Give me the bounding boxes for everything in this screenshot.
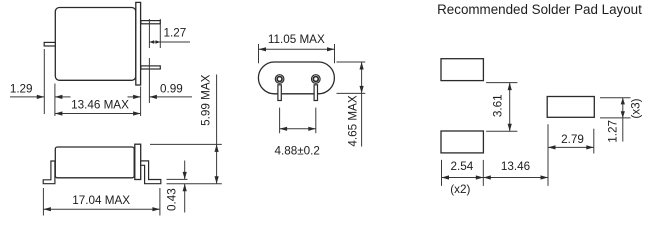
dimension 13.46 MAX line — [55, 113, 141, 115]
front view right lead seal circle — [312, 75, 321, 84]
label 1.29 — [10, 83, 33, 96]
dimension 2.79 line — [548, 146, 594, 148]
dimension 0.43 extension lines — [167, 179, 222, 183]
front view left lead — [278, 85, 281, 101]
dimension 2.54 arrows — [442, 175, 484, 179]
dimension 1.29 arrow left — [10, 96, 44, 98]
dimension 4.65 MAX line — [361, 62, 363, 147]
label 13.46 pads — [501, 160, 530, 173]
dimension 5.99 MAX arrows — [215, 144, 219, 183]
label 11.05 MAX — [268, 33, 325, 46]
dimension 13.46 pad extension line right — [547, 124, 549, 186]
top view body — [55, 8, 136, 81]
svg-text:13.46 MAX: 13.46 MAX — [71, 99, 129, 112]
front view left lead seal circle — [275, 75, 284, 84]
label (x2) — [450, 183, 470, 196]
solder pad top-left — [441, 59, 483, 81]
dimension 0.99 extension lines — [141, 58, 150, 116]
label 1.27 top view — [164, 27, 187, 40]
dimension 1.27 extension lines (top view lead) — [149, 19, 160, 48]
dimension 1.27 pad arrows — [621, 98, 625, 118]
dimension 1.29 arrow right — [55, 96, 71, 98]
label 3.61 rotated — [491, 94, 504, 117]
dimension 17.04 MAX arrows — [43, 207, 159, 211]
svg-text:2.54: 2.54 — [451, 160, 474, 173]
dimension 2.79 arrows — [548, 145, 594, 149]
dimension 1.27 arrows — [149, 40, 160, 44]
dimension 2.54 extension lines — [442, 160, 484, 186]
svg-text:4.88±0.2: 4.88±0.2 — [274, 145, 319, 158]
dimension 0.43 arrow upper — [184, 161, 186, 180]
front view right lead — [314, 85, 317, 101]
dimension 2.79 extension line right — [593, 129, 595, 154]
dimension 1.27 pad extension lines — [600, 98, 631, 118]
side view body — [55, 147, 134, 178]
svg-text:0.43: 0.43 — [166, 188, 179, 211]
label 4.65 MAX rotated — [347, 95, 360, 147]
label 13.46 MAX — [71, 99, 129, 112]
dimension 4.65 MAX extension lines — [337, 62, 366, 93]
svg-text:(x2): (x2) — [450, 183, 470, 196]
top view upper lead — [141, 21, 160, 24]
svg-text:5.99 MAX: 5.99 MAX — [200, 74, 213, 126]
dimension 13.46 MAX extension line left — [54, 84, 56, 117]
label 17.04 MAX — [72, 194, 130, 207]
solder pad right — [547, 97, 594, 118]
svg-text:2.79: 2.79 — [561, 133, 584, 146]
label 5.99 MAX rotated — [200, 74, 213, 126]
dimension 13.46 MAX arrows — [55, 111, 141, 115]
svg-text:4.65 MAX: 4.65 MAX — [347, 95, 360, 147]
dimension 11.05 MAX extension lines — [259, 44, 335, 63]
solder pad bottom-left — [441, 131, 483, 153]
svg-text:17.04 MAX: 17.04 MAX — [72, 194, 130, 207]
dimension 13.46 pad arrows — [483, 175, 548, 179]
label 2.54 — [451, 160, 474, 173]
dimension 1.27 line and leader — [149, 41, 190, 43]
dimension 3.61 arrows — [508, 83, 512, 132]
dimension 4.88 arrows — [280, 127, 316, 131]
dimension 11.05 MAX arrows — [259, 47, 335, 51]
title Recommended Solder Pad Layout — [437, 2, 642, 17]
side view left bent lead — [43, 161, 55, 184]
dimension 17.04 MAX line — [43, 208, 159, 210]
dimension 2.54 line — [442, 177, 484, 179]
label 0.99 — [160, 83, 183, 96]
label 2.79 — [561, 133, 584, 146]
top view lower lead — [141, 66, 160, 69]
svg-text:13.46: 13.46 — [501, 160, 530, 173]
side view base flange — [135, 144, 141, 179]
svg-text:3.61: 3.61 — [491, 94, 504, 117]
dimension 17.04 MAX extension lines — [43, 188, 159, 216]
svg-text:0.99: 0.99 — [160, 83, 183, 96]
dimension 3.61 extension lines — [486, 83, 517, 132]
dimension 0.99 arrow right — [149, 96, 192, 98]
dimension 5.99 MAX line — [216, 75, 218, 184]
svg-text:1.27: 1.27 — [607, 120, 620, 143]
label 4.88 plus-minus 0.2 — [274, 145, 319, 158]
dimension 4.88 extension lines — [280, 108, 316, 134]
dimension 4.65 MAX arrows — [360, 62, 364, 93]
dimension 0.43 arrow lower — [184, 184, 186, 213]
front view body — [258, 62, 334, 94]
dimension 4.88 line — [280, 128, 316, 130]
label 1.27 pads rotated — [607, 120, 620, 143]
label 0.43 rotated — [166, 188, 179, 211]
side view right bent lead — [141, 161, 161, 184]
svg-text:(x3): (x3) — [630, 98, 643, 118]
dimension 1.29 extension line — [43, 49, 45, 114]
dimension 3.61 line — [509, 83, 511, 132]
svg-text:1.29: 1.29 — [10, 83, 33, 96]
svg-text:Recommended Solder Pad Layout: Recommended Solder Pad Layout — [437, 2, 642, 17]
svg-text:11.05 MAX: 11.05 MAX — [268, 33, 325, 46]
dimension 0.99 arrow left — [128, 96, 141, 98]
svg-text:1.27: 1.27 — [164, 27, 187, 40]
dimension 5.99 MAX extension line top — [150, 143, 222, 145]
top view base flange — [136, 2, 141, 85]
dimension 1.27 pad line — [622, 98, 624, 142]
dimension 13.46 pad line — [483, 177, 548, 179]
dimension 11.05 MAX line — [259, 48, 335, 50]
label (x3) rotated — [630, 98, 643, 118]
top view left lead tab — [44, 42, 55, 46]
